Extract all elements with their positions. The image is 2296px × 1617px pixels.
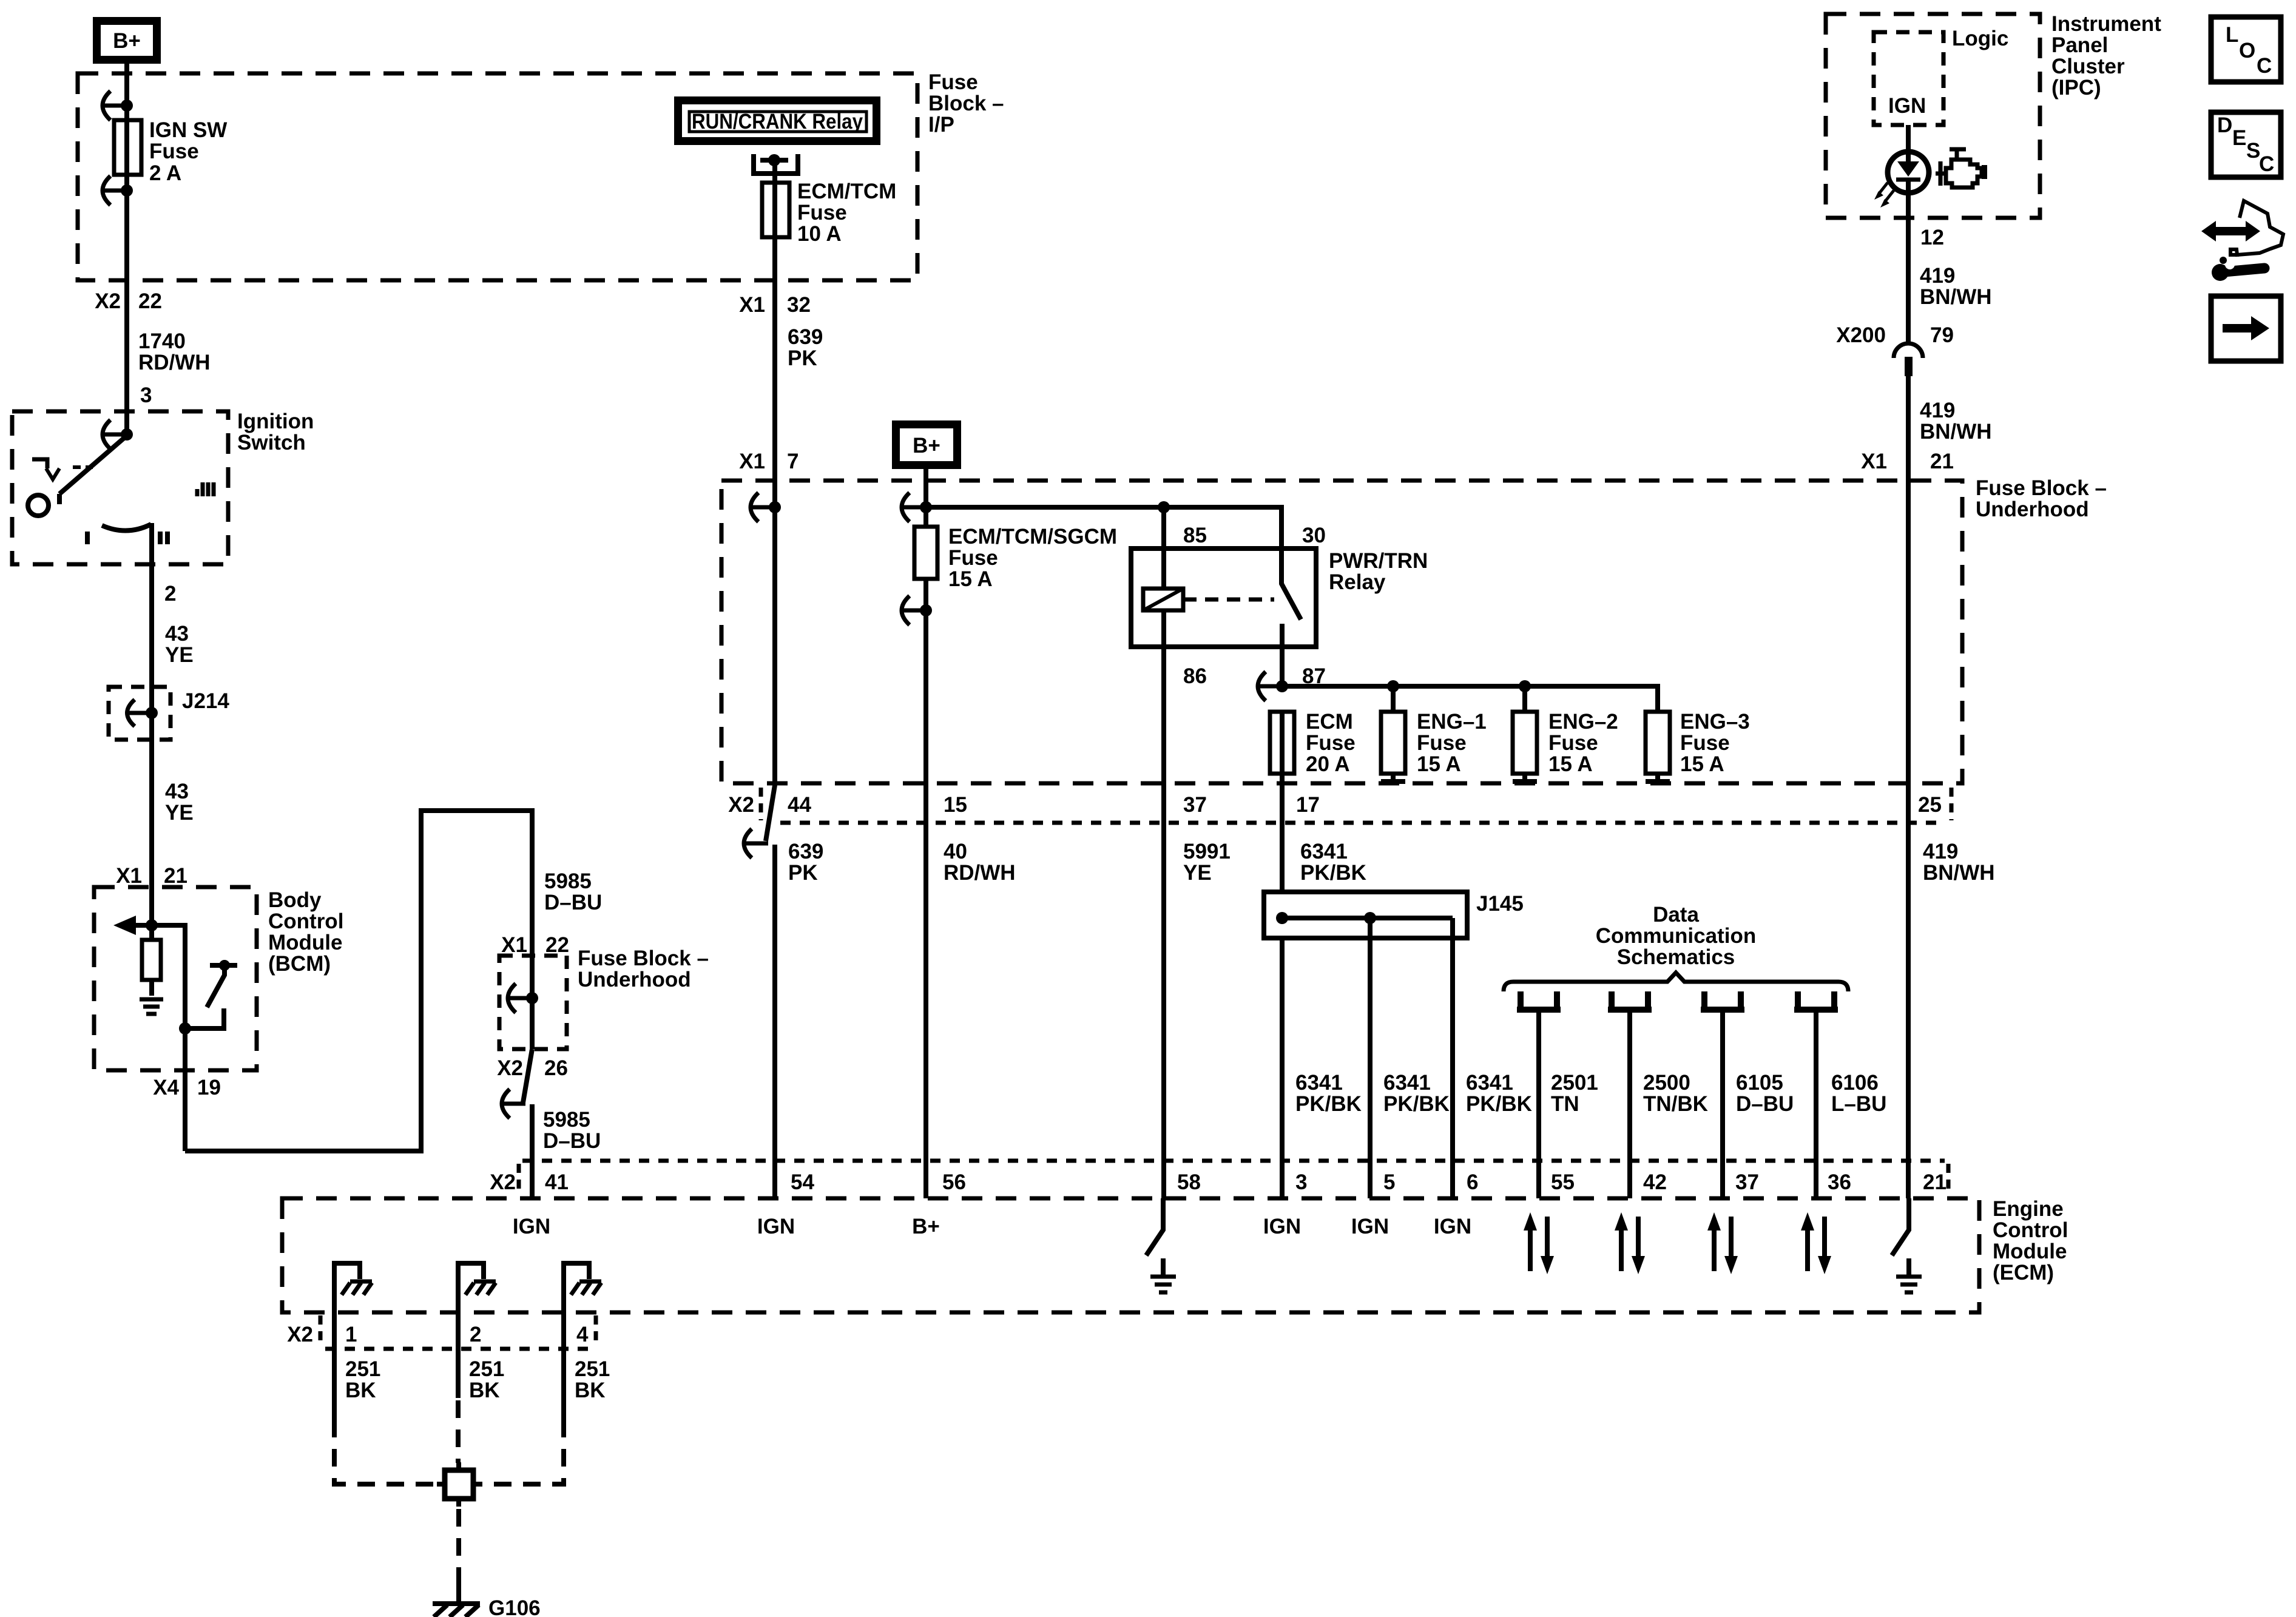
svg-text:D–BU: D–BU [544,891,602,914]
relay output bracket and node [754,154,798,174]
relay switch blade pin 30 to 87 [1281,549,1301,647]
wire label 419 BN/WH (upper) [1920,264,1992,309]
label ENG-3 Fuse 15 A [1680,710,1750,776]
svg-text:J145: J145 [1476,892,1524,916]
svg-text:D–BU: D–BU [1736,1092,1794,1116]
svg-text:6105: 6105 [1736,1071,1783,1095]
terminal clip below ECM/TCM/SGCM fuse [902,596,932,625]
module box Ignition Switch [12,411,228,564]
wire 419 BN/WH from IPC [1906,192,1911,345]
svg-text:58: 58 [1177,1170,1201,1194]
wire label 639 PK (upper) [788,325,823,370]
power symbol B+ (center) [896,425,957,465]
svg-text:RD/WH: RD/WH [944,861,1016,885]
svg-text:PK: PK [788,861,818,885]
svg-text:15 A: 15 A [1548,752,1593,776]
data arrows at pin 36 [1801,1212,1831,1274]
ground G106 [433,1584,480,1617]
label Fuse Block - Underhood (right) [1976,476,2107,521]
svg-text:30: 30 [1302,524,1326,547]
wire 5985 D-BU to ECM pin 41 [530,1104,535,1198]
fuse ENG-1 Fuse 15 A [1381,712,1405,781]
svg-text:PK/BK: PK/BK [1295,1092,1362,1116]
svg-text:IGN: IGN [1888,94,1926,118]
svg-text:Underhood: Underhood [578,968,691,991]
svg-text:6341: 6341 [1383,1071,1431,1095]
svg-text:5: 5 [1383,1170,1395,1194]
svg-text:Fuse: Fuse [1548,731,1598,755]
wire 43 YE to BCM [149,713,154,925]
svg-text:Schematics: Schematics [1617,945,1735,969]
svg-text:C: C [2257,54,2272,78]
label Data Communication Schematics [1596,903,1756,969]
data arrows at pin 42 [1615,1212,1645,1274]
svg-text:419: 419 [1923,840,1958,863]
svg-text:BN/WH: BN/WH [1920,420,1992,444]
wire label 5991 YE [1183,840,1231,885]
connector jog and clip (X2-26) [502,1049,532,1118]
wire splice to G106 (dashed) [456,1509,461,1584]
svg-text:ECM/TCM/SGCM: ECM/TCM/SGCM [948,525,1117,549]
position mark III [197,482,214,496]
svg-text:12: 12 [1920,226,1944,249]
terminal clip inside small fuse block [508,984,538,1013]
pin labels X1 21 (underhood top right) [1861,450,1954,473]
svg-text:IGN: IGN [1351,1215,1389,1238]
svg-text:85: 85 [1183,524,1207,547]
label Instrument Panel Cluster (IPC) [2051,12,2161,100]
svg-text:21: 21 [1930,450,1954,473]
wire label 251 BK (pin 1) [345,1357,380,1402]
svg-text:Fuse Block –: Fuse Block – [1976,476,2107,500]
fuse ENG-3 Fuse 15 A [1646,712,1670,781]
wire 419 BN/WH through pin 25 to ECM pin 21 [1906,783,1911,1198]
terminal clip at top of IGN SW fuse [103,91,133,120]
svg-text:ECM/TCM: ECM/TCM [797,180,896,203]
icon DESC box [2211,112,2281,177]
svg-text:Logic: Logic [1952,27,2008,50]
label ENG-1 Fuse 15 A [1417,710,1487,776]
svg-text:639: 639 [788,325,823,349]
module box Fuse Block - I/P [78,73,917,280]
pin labels X1 21 (BCM) [116,864,187,888]
switch blade (ignition switch) [59,436,127,494]
svg-text:7: 7 [787,450,799,473]
svg-text:X2: X2 [287,1323,313,1346]
svg-text:(ECM): (ECM) [1993,1261,2054,1284]
svg-text:ENG–3: ENG–3 [1680,710,1750,734]
svg-text:43: 43 [165,780,189,803]
node junction at relay pin 85 feed [1158,501,1170,513]
data arrows at pin 55 [1524,1212,1554,1274]
svg-text:Fuse: Fuse [797,201,847,224]
svg-text:79: 79 [1930,323,1954,347]
svg-text:1: 1 [345,1323,357,1346]
label Logic [1952,27,2008,50]
splice pack J145 [1264,892,1467,938]
svg-text:Communication: Communication [1596,924,1756,948]
svg-text:54: 54 [791,1170,814,1194]
splice block (ground splice) [437,1462,481,1507]
svg-text:X1: X1 [116,864,142,888]
module box Fuse Block - Underhood (main) [721,481,1962,783]
svg-text:21: 21 [164,864,187,888]
svg-text:BK: BK [345,1379,376,1402]
wire 2500 TN/BK to ECM pin 42 [1627,1010,1632,1198]
wire label 6105 D-BU [1736,1071,1794,1116]
fuse ECM/TCM/SGCM Fuse 15 A [914,527,937,579]
terminal clip at pin 87 bus [1258,672,1288,701]
svg-text:Ignition: Ignition [237,410,314,433]
svg-text:6341: 6341 [1300,840,1348,863]
svg-text:Fuse: Fuse [948,546,998,570]
label Body Control Module (BCM) [268,888,343,976]
pin label 87 [1302,664,1326,688]
wire relay pin 85 drop [1161,507,1166,589]
wire label 43 YE (upper) [165,622,194,667]
svg-text:3: 3 [140,383,152,407]
svg-text:BN/WH: BN/WH [1923,861,1995,885]
wire BCM internal to output [152,925,185,1151]
off-page connector (serial data 2500) [1608,991,1652,1010]
module box Instrument Panel Cluster (IPC) [1826,14,2040,218]
module box Fuse Block - Underhood (pass-through) [499,956,567,1049]
label Fuse Block - I/P [928,70,1004,137]
svg-text:41: 41 [545,1170,569,1194]
wire 419 BN/WH to underhood fuse block [1906,376,1911,783]
pin label 30 [1302,524,1326,547]
node BCM input junction [146,919,158,931]
svg-text:J214: J214 [182,689,229,713]
svg-text:5985: 5985 [544,869,592,893]
svg-text:Engine: Engine [1993,1197,2064,1221]
pin label 86 [1183,664,1207,688]
relay RUN/CRANK Relay (callout box) [678,101,877,141]
wire 639 PK to ECM pin 54 [772,845,777,1198]
connector line X2 (ECM bottom) [320,1315,596,1349]
wire through small fuse block [530,956,535,1049]
icon wrench [2212,257,2264,281]
wire label 6341 PK/BK [1300,840,1366,885]
svg-text:419: 419 [1920,399,1955,422]
pin label 12 (IPC bottom) [1920,226,1944,249]
svg-text:B+: B+ [113,29,141,53]
LED light arrows [1874,183,1894,208]
switch to ground at ECM pin 58 [1146,1198,1163,1255]
indicator LED (MIL) [1888,152,1929,193]
svg-text:C: C [2259,152,2274,176]
inline connector X200 pin 79 [1836,323,1954,376]
svg-text:251: 251 [575,1357,610,1381]
svg-text:X2: X2 [95,289,121,313]
fuse ECM Fuse 20 A [1270,712,1294,892]
svg-text:ENG–2: ENG–2 [1548,710,1618,734]
pin label 3 (ignition switch) [140,383,152,407]
wire label 251 BK (pin 2) [469,1357,504,1402]
ground pigtail ECM pin 4 [564,1263,601,1420]
wire RUN/CRANK relay output (x=1277) [772,160,777,785]
pin labels X4 19 (BCM bottom) [153,1076,221,1099]
wire 2501 TN to ECM pin 55 [1536,1010,1541,1198]
svg-text:L–BU: L–BU [1831,1092,1886,1116]
svg-text:Fuse: Fuse [1417,731,1467,755]
svg-text:IGN: IGN [1434,1215,1471,1238]
svg-text:E: E [2232,126,2246,150]
svg-text:IGN: IGN [1263,1215,1301,1238]
svg-text:5991: 5991 [1183,840,1231,863]
wire J145 to ECM pin 3 [1280,938,1285,1198]
svg-text:21: 21 [1923,1170,1947,1194]
node bus junction ENG-2 [1519,680,1531,692]
svg-text:PWR/TRN: PWR/TRN [1329,549,1428,573]
svg-text:X1: X1 [1861,450,1887,473]
svg-text:22: 22 [545,933,569,957]
svg-text:32: 32 [787,293,811,317]
svg-text:Fuse Block –: Fuse Block – [578,947,709,970]
svg-text:BK: BK [469,1379,500,1402]
resistor (BCM pull-down) [142,925,161,996]
svg-text:42: 42 [1643,1170,1667,1194]
connector line X2 (ECM top) [519,1161,1948,1195]
svg-text:D: D [2217,113,2232,137]
svg-text:22: 22 [138,289,162,313]
svg-text:2: 2 [164,582,176,606]
svg-text:(BCM): (BCM) [268,952,331,976]
wire 5991 YE relay pin 86 to ECM pin 58 [1161,610,1166,1198]
wire label 6341 PK/BK (branch 3) [1466,1071,1532,1116]
logic block (IPC internal) [1874,32,1943,125]
wire RUN contact down (x=250) [149,523,154,713]
wire label 43 YE (lower) [165,780,194,825]
svg-text:6341: 6341 [1466,1071,1513,1095]
terminal clip below IGN SW fuse [103,176,133,205]
fuse IGN SW Fuse 2 A [114,120,141,175]
wire label 639 PK (lower) [788,840,823,885]
svg-text:Fuse: Fuse [1680,731,1730,755]
svg-text:YE: YE [165,801,194,825]
wire fuse feed bus [1282,686,1658,712]
contact arc to RUN position [102,524,151,531]
svg-text:Underhood: Underhood [1976,498,2089,521]
svg-text:Data: Data [1653,903,1699,927]
svg-text:IGN SW: IGN SW [149,118,227,142]
svg-text:2500: 2500 [1643,1071,1690,1095]
pin label 2 (ignition switch bottom) [164,582,176,606]
net labels IGN IGN B+ IGN IGN IGN (ECM inputs) [513,1215,1471,1238]
svg-text:ECM: ECM [1306,710,1353,734]
svg-text:X1: X1 [739,450,765,473]
svg-text:40: 40 [944,840,967,863]
svg-text:86: 86 [1183,664,1207,688]
label IGN SW Fuse 2 A [149,118,227,185]
svg-text:1740: 1740 [138,329,186,353]
off-page connector (serial data 2501) [1517,991,1561,1010]
svg-text:D–BU: D–BU [543,1129,601,1153]
wire B+ bus to PWR/TRN relay [926,507,1281,549]
pin labels X2 44 15 37 17 25 (underhood bottom) [728,793,1942,817]
pin label 85 [1183,524,1207,547]
wire label 419 BN/WH (lower) [1923,840,1995,885]
ground (BCM internal) [140,999,163,1014]
svg-text:Relay: Relay [1329,570,1386,594]
ground (ECM pin 58) [1150,1258,1176,1292]
wire BCM X4-19 routed right and up (5985 D-BU) [185,811,532,1151]
svg-text:251: 251 [469,1357,504,1381]
wire label 2501 TN [1551,1071,1598,1116]
svg-text:X1: X1 [739,293,765,317]
signal arrow (BCM internal, to left) [113,916,152,935]
relay actuation dashed link [1183,598,1274,602]
wire IPC logic to indicator [1906,125,1911,218]
icon arrow box [2211,296,2281,361]
svg-text:O: O [2239,39,2255,62]
ground (ECM pin 21) [1896,1258,1922,1292]
connector line X2 (underhood bottom) [761,788,1951,823]
svg-text:L: L [2226,23,2238,47]
pin labels X2 1 2 4 (ECM bottom) [287,1323,589,1346]
svg-text:56: 56 [942,1170,966,1194]
svg-text:2501: 2501 [1551,1071,1598,1095]
svg-text:6341: 6341 [1295,1071,1343,1095]
svg-text:Panel: Panel [2051,33,2108,57]
label J214 [182,689,229,713]
svg-text:ENG–1: ENG–1 [1417,710,1487,734]
svg-text:Fuse: Fuse [1306,731,1356,755]
splice J214 [109,687,171,740]
wire 251 BK pin 4 to splice (dashed run) [473,1420,564,1484]
label J145 [1476,892,1524,916]
fuse ENG-2 Fuse 15 A [1513,712,1537,781]
svg-text:419: 419 [1920,264,1955,288]
svg-text:RD/WH: RD/WH [138,351,211,374]
svg-text:S: S [2246,139,2260,163]
wire ENG-1 fuse drop [1391,686,1396,712]
svg-text:(IPC): (IPC) [2051,76,2101,100]
svg-text:IGN: IGN [513,1215,550,1238]
label ENG-2 Fuse 15 A [1548,710,1618,776]
pin labels X1 7 (Fuse Block Underhood top) [739,450,799,473]
wire label 6106 L-BU [1831,1071,1886,1116]
wire label 1740 RD/WH [138,329,211,374]
label Engine Control Module (ECM) [1993,1197,2068,1284]
data arrows at pin 37 [1707,1212,1738,1274]
wire label 40 RD/WH [944,840,1016,885]
ground pigtail ECM pin 2 [458,1263,496,1398]
wire B+ into underhood fuse block (x=1526) [923,465,928,527]
switch (BCM internal output driver) [179,960,237,1035]
svg-text:37: 37 [1183,793,1207,817]
node bus junction ENG-1 [1387,680,1399,692]
wire ENG-2 fuse drop [1522,686,1527,712]
label G106 [488,1596,541,1617]
position mark I [85,532,90,544]
svg-text:X2: X2 [490,1170,516,1194]
svg-text:Switch: Switch [237,431,306,454]
svg-text:10 A: 10 A [797,222,842,246]
pin labels X1 32 (Fuse Block I/P bottom) [739,293,811,317]
wire label 419 BN/WH (middle) [1920,399,1992,444]
svg-text:B+: B+ [913,434,940,457]
svg-text:PK/BK: PK/BK [1466,1092,1532,1116]
svg-text:BK: BK [575,1379,606,1402]
svg-text:26: 26 [544,1056,568,1080]
svg-text:20 A: 20 A [1306,752,1350,776]
OFF position circle contact [28,494,59,516]
label Fuse Block - Underhood (small) [578,947,709,991]
svg-text:15 A: 15 A [1680,752,1724,776]
wire 251 BK pin 1 to splice (dashed run) [334,1420,445,1484]
wire 40 RD/WH down to ECM pin 56 [923,579,928,1198]
svg-text:Module: Module [1993,1240,2067,1263]
svg-text:G106: G106 [488,1596,541,1617]
wire J145 to ECM pin 5 [1368,918,1373,1198]
off-page connector (data 6105) [1701,991,1744,1010]
ACC position contact [32,459,93,479]
engine icon (check engine) [1936,149,1985,187]
brace for data communication schematics [1504,973,1848,991]
wire label 5985 D-BU (lower) [543,1108,601,1153]
svg-text:15 A: 15 A [1417,752,1461,776]
svg-text:Control: Control [268,910,343,933]
svg-text:YE: YE [1183,861,1212,885]
svg-text:B+: B+ [912,1215,940,1238]
svg-text:15: 15 [944,793,967,817]
pin labels X2 22 (Fuse Block I/P bottom) [95,289,162,313]
svg-text:X200: X200 [1836,323,1886,347]
wire 6105 D-BU to ECM pin 37 [1720,1010,1725,1198]
fuse ECM/TCM Fuse 10 A [762,183,789,237]
wire relay pin 87 to fuse bus [1280,647,1285,686]
svg-text:TN: TN [1551,1092,1579,1116]
svg-text:55: 55 [1551,1170,1575,1194]
svg-text:251: 251 [345,1357,380,1381]
wire 251 BK pin 2 to splice (dashed run) [456,1400,461,1463]
svg-text:Block –: Block – [928,92,1004,115]
wire label 2500 TN/BK [1643,1071,1708,1116]
svg-text:YE: YE [165,643,194,667]
svg-text:43: 43 [165,622,189,646]
wire label 6341 PK/BK (branch 1) [1295,1071,1362,1116]
position mark II [160,532,167,544]
svg-text:Control: Control [1993,1218,2068,1242]
module box Engine Control Module (ECM) [282,1198,1979,1312]
connector jog and clip (X2-44) [744,785,775,858]
label Ignition Switch [237,410,314,454]
svg-text:17: 17 [1296,793,1320,817]
svg-text:Fuse: Fuse [928,70,978,94]
terminal clip and node (B+ wire entering underhood) [902,493,932,522]
svg-text:Module: Module [268,931,342,954]
svg-text:X2: X2 [497,1056,523,1080]
wire label 5985 D-BU (upper) [544,869,602,914]
pin labels X1 22 (fuse block underhood small) [501,933,569,957]
svg-text:44: 44 [788,793,811,817]
svg-text:RUN/CRANK Relay: RUN/CRANK Relay [692,110,863,133]
svg-text:BN/WH: BN/WH [1920,285,1992,309]
svg-text:IGN: IGN [757,1215,795,1238]
ground pigtail ECM pin 1 [334,1263,372,1420]
terminal clip at ignition switch input [103,420,133,449]
svg-text:I/P: I/P [928,113,954,137]
svg-text:6106: 6106 [1831,1071,1879,1095]
svg-text:TN/BK: TN/BK [1643,1092,1708,1116]
svg-text:X2: X2 [728,793,754,817]
svg-text:639: 639 [788,840,823,863]
relay PWR/TRN Relay box [1131,549,1316,647]
wire 6106 L-BU to ECM pin 36 [1814,1010,1818,1198]
label ECM Fuse 20 A [1306,710,1356,776]
svg-text:PK: PK [788,346,817,370]
